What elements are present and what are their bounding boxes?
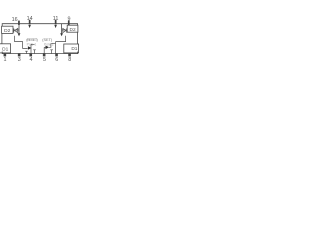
- pin 16 stub: [18, 21, 20, 25]
- package outline top rail: [2, 24, 77, 26]
- coil box D1 bottom-right: [64, 44, 79, 53]
- pin 4 stub: [29, 53, 32, 56]
- coil box D2 top-right: [67, 25, 78, 33]
- contact pole 2 armature arrow: [46, 46, 50, 50]
- svg-text:D1: D1: [71, 46, 77, 52]
- pin 9 stub: [68, 21, 70, 25]
- contact pole 2: COM vertical pin 5: [43, 47, 45, 53]
- pin 11 stub: [55, 20, 57, 25]
- svg-text:11: 11: [53, 16, 59, 22]
- wire coil to contact (left L-wire): [15, 36, 28, 49]
- wire left edge TL to BL: [1, 33, 3, 43]
- pin 14 stub: [29, 20, 31, 25]
- package outline bottom rail: [2, 52, 77, 54]
- wire coil to contact (right L-wire): [56, 36, 66, 42]
- contact pole 1: COM vertical pin 4: [30, 44, 32, 53]
- svg-text:Pole 2: Pole 2: [44, 42, 54, 46]
- svg-text:4: 4: [30, 57, 33, 63]
- pin 3 stub: [18, 53, 21, 56]
- arrowhead under pin 14: [28, 25, 31, 28]
- svg-text:(RESET): (RESET): [26, 38, 38, 42]
- svg-text:5: 5: [43, 57, 46, 63]
- contact pole 1: curl over pin 4: [31, 43, 35, 45]
- contact pole 2: wire to armature: [44, 46, 45, 48]
- svg-text:6: 6: [55, 57, 58, 63]
- wire pin16 down with arrowhead: [18, 24, 21, 36]
- contact pole 2 fixed contact tick: [50, 50, 53, 54]
- svg-text:1: 1: [4, 57, 7, 63]
- pin 6 stub: [55, 53, 58, 56]
- svg-text:(SET): (SET): [42, 38, 53, 42]
- coil box D1 bottom-left: [0, 44, 11, 53]
- svg-text:D1: D1: [2, 46, 8, 52]
- diode D2 symbol: [13, 28, 19, 32]
- pin 8 stub: [68, 53, 71, 56]
- svg-text:14: 14: [27, 16, 33, 22]
- svg-text:D2: D2: [70, 27, 76, 33]
- contact pole 1 fixed contact tick right: [33, 50, 36, 54]
- arrowhead under pin 11: [54, 25, 57, 28]
- contact pole 1 fixed contact tick left: [25, 51, 28, 53]
- wire right edge TR to BR: [77, 32, 79, 44]
- pin 5 stub: [43, 53, 46, 56]
- svg-text:16: 16: [12, 17, 18, 23]
- diode symbol right: [62, 28, 68, 32]
- contact pole 2 wire up-right: [49, 44, 56, 48]
- svg-text:3: 3: [18, 57, 21, 63]
- contact pole 1 armature arrow: [28, 46, 32, 50]
- svg-text:D2: D2: [4, 28, 10, 34]
- wire pin6 vertical: [55, 42, 57, 54]
- svg-text:8: 8: [68, 57, 71, 63]
- coil box D2 top-left: [2, 26, 13, 34]
- pin 1 stub: [4, 53, 7, 56]
- svg-text:9: 9: [68, 16, 71, 22]
- wire pin9 side vertical with arrowhead: [60, 24, 63, 36]
